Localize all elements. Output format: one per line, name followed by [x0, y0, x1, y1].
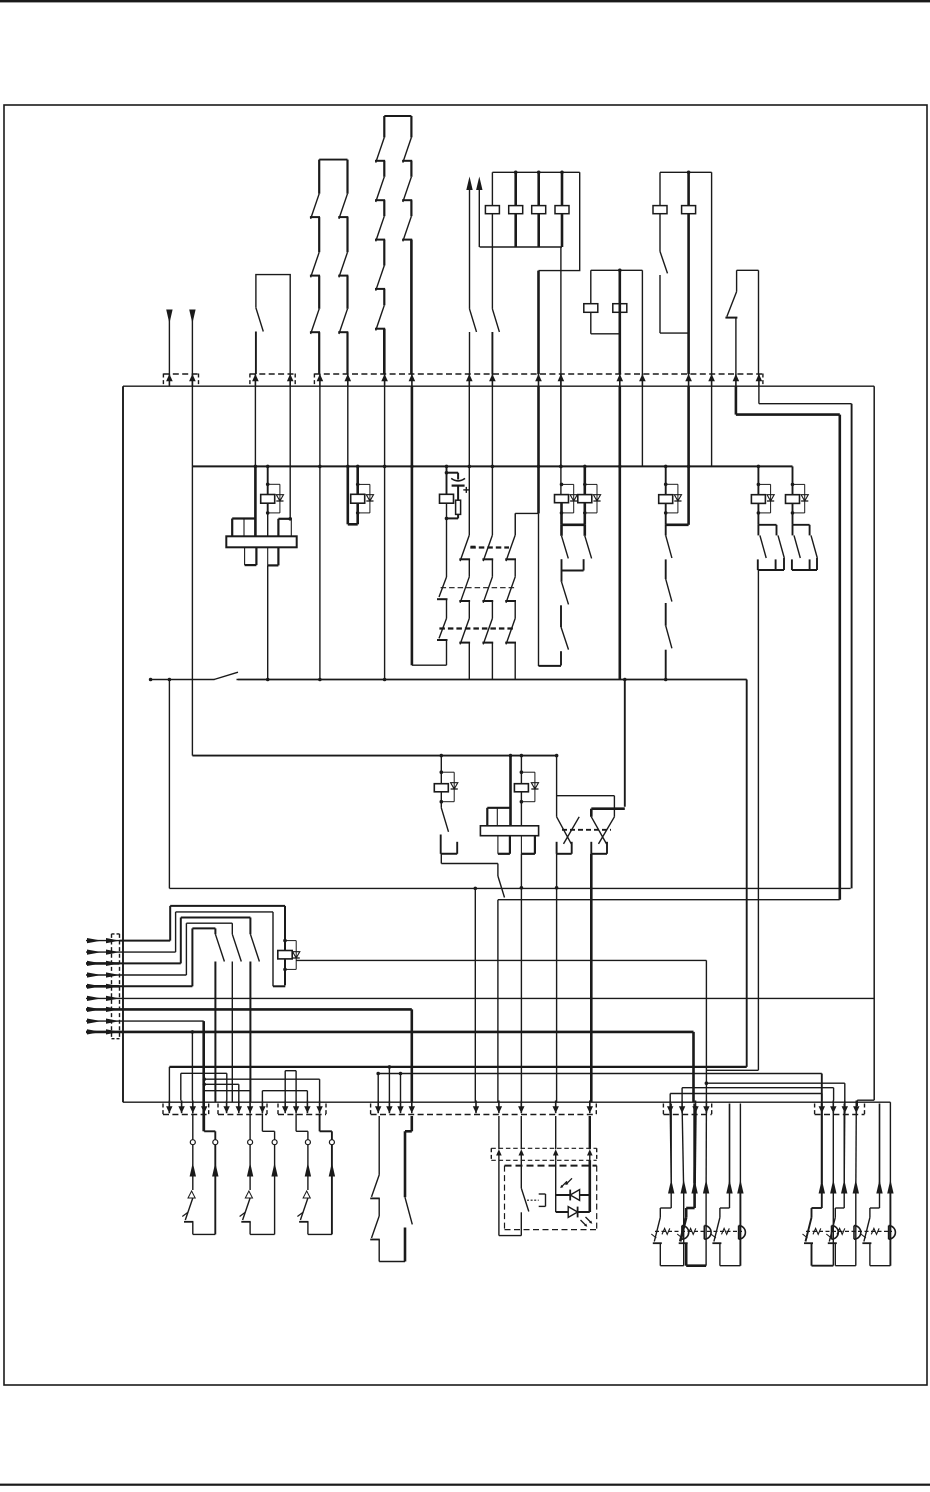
jumper drop 400 — [400, 1074, 402, 1101]
wire row 7 — [120, 1008, 412, 1011]
module LEDs — [555, 1160, 557, 1212]
jumper rail 1073R — [378, 1073, 822, 1075]
gang pole4 header — [515, 512, 538, 514]
jumper J1 — [181, 1072, 227, 1074]
jumper rail 1083 — [706, 1082, 844, 1084]
ring contact blades — [249, 918, 251, 935]
wire drop 706 — [705, 960, 707, 1101]
wire 706 lamp feed — [705, 1106, 707, 1192]
K1 lower-left staple — [244, 547, 246, 565]
switch S1 bridge — [256, 275, 290, 374]
wire row 6 — [120, 997, 875, 999]
connector ring wires — [120, 940, 171, 942]
relay K6 — [757, 465, 761, 469]
wire drop 538 — [537, 386, 540, 513]
wire drop 492 — [491, 386, 493, 466]
wire 695 lamp feed — [693, 1106, 697, 1183]
junction 475 — [474, 887, 478, 891]
timer relay KT — [445, 465, 449, 469]
junction K5 bus — [664, 678, 668, 682]
wire 670 lamp feed — [670, 1106, 671, 1183]
bottom rule — [0, 1484, 930, 1486]
jumper drop 389 — [388, 1067, 390, 1101]
top border bar — [0, 0, 930, 2]
thick feeder from fuse block — [537, 271, 540, 374]
wire 856 lamp feed — [855, 1106, 858, 1192]
relay K11 — [509, 754, 513, 758]
right vertical V2 — [851, 404, 853, 889]
K1 lower-right staple — [267, 547, 269, 565]
wire drop 255 — [254, 386, 256, 466]
rail N6 drop — [746, 680, 748, 1067]
jumper J3 — [204, 1083, 239, 1085]
jumper rail 1093 — [670, 1093, 822, 1095]
wire drop 560 — [560, 386, 562, 466]
wire drop 192 — [191, 374, 193, 466]
wire 960 — [296, 959, 706, 961]
switch S13 — [378, 1116, 380, 1175]
K12 output left — [556, 854, 558, 1102]
K8 output wire — [295, 959, 297, 961]
wire 682 lamp feed — [682, 1106, 684, 1192]
contact feed 255 lower — [254, 466, 257, 536]
right vertical V3 thick — [838, 415, 841, 900]
connector strip X3 pin arrows — [166, 1106, 172, 1113]
K1 armature bar — [226, 536, 296, 547]
jumper J4 — [204, 1090, 250, 1092]
ladder switch S2 — [319, 159, 347, 161]
gang switch block — [468, 466, 470, 535]
rail N9 — [498, 899, 840, 901]
K6 output wire — [757, 570, 759, 1070]
K5 contact chain — [665, 525, 667, 536]
switch under A1 — [470, 309, 477, 332]
K11 output wire — [520, 854, 522, 1102]
rail N5 gap mask — [215, 678, 237, 681]
feeder arrow A2 — [476, 177, 482, 191]
wire drop 619 — [618, 386, 621, 680]
wire 821 lamp feed — [821, 1074, 823, 1184]
module relay contact — [520, 1160, 522, 1188]
wire 890 from rail — [889, 1102, 891, 1192]
jumper rail 1070R — [706, 1069, 758, 1071]
push button S12 — [319, 1114, 321, 1132]
wire drop 384 — [384, 386, 386, 680]
relay K7 — [792, 466, 794, 494]
fuse block F7-F8 — [591, 269, 643, 271]
ring drop K8 — [284, 906, 286, 941]
wire 833 lamp feed — [832, 1106, 834, 1192]
fuse block right drop — [539, 172, 580, 270]
K1 upper-left staple — [232, 517, 256, 519]
relay K8 — [278, 951, 292, 959]
jumper drop 378 — [377, 1074, 379, 1101]
contact feed 290 — [289, 386, 291, 519]
wire drop 642 — [641, 386, 643, 466]
supply wire A with down arrow — [166, 310, 172, 324]
jumper J2 — [204, 1078, 319, 1080]
relay K1 coil — [266, 465, 270, 469]
rail N6 — [192, 755, 556, 757]
switch under F1 — [491, 247, 493, 309]
left connector X2 box — [111, 934, 113, 1039]
switch rail N5 — [151, 679, 747, 681]
jumper rail 1066 — [169, 1066, 746, 1068]
connector strip X1 pin arrows — [166, 374, 173, 381]
wire 740 from rail — [739, 1104, 741, 1193]
supply wire B with down arrow — [189, 310, 195, 324]
relay K10 — [440, 754, 444, 758]
connector strip X3 dashed boxes — [163, 1114, 209, 1116]
KT contact chain — [439, 577, 447, 597]
wire9 tap 192 — [191, 1032, 193, 1101]
fuse block F5-F6 — [660, 171, 712, 173]
wire drop 319 — [319, 386, 321, 680]
K10 output switch — [497, 864, 499, 877]
bridge wire 538 lower — [538, 513, 540, 666]
wire row 8 — [120, 1020, 204, 1022]
relay K2 — [346, 466, 349, 524]
push button S10 — [203, 1114, 205, 1132]
left connector X2 pin arrows — [86, 940, 120, 942]
wire 729 from rail — [729, 1104, 731, 1184]
wire row 9 — [120, 1031, 694, 1034]
bus rail N1 — [123, 385, 874, 387]
feeder arrow A1 — [466, 177, 472, 191]
relay K4 — [583, 465, 587, 469]
K3K4 contact chain — [562, 523, 585, 526]
minus label — [471, 546, 476, 548]
wire 844 lamp feed — [843, 1106, 846, 1183]
bus rail N3 thick — [736, 413, 840, 416]
wire 879 from rail — [879, 1104, 881, 1184]
changeover block K12 — [556, 756, 558, 817]
connector strip X1 dashed boxes — [163, 373, 198, 375]
module X4 header — [491, 1147, 596, 1149]
wire drop 347 — [347, 386, 349, 466]
module A1 dashed box — [505, 1165, 597, 1167]
wire drop 711 — [711, 386, 713, 466]
bus rail N4 — [192, 465, 792, 467]
rail N8 — [169, 887, 850, 889]
wire drop 411 — [411, 386, 414, 665]
K1 upper-right staple — [278, 518, 291, 520]
K12 output right — [590, 854, 593, 1102]
left frame wire — [122, 386, 124, 1102]
fuse block F1-F4 — [492, 171, 579, 173]
jumper J6 — [285, 1070, 296, 1072]
switch S4 — [737, 269, 759, 271]
jumper drop 169 — [168, 1067, 170, 1102]
bus rail N2 — [759, 403, 852, 405]
ladder switch S3 — [384, 115, 411, 117]
relay K5 — [664, 465, 668, 469]
jumper rail 1087 — [682, 1087, 834, 1089]
ring drop 273 — [272, 912, 274, 986]
jumper J5 — [262, 1090, 307, 1092]
K1 output wire — [267, 565, 269, 679]
relay K3 — [560, 247, 562, 495]
switch S1 blade — [256, 308, 263, 332]
right vertical V1 — [873, 386, 875, 1100]
horn group H2 — [821, 1104, 823, 1209]
supply rail 1102 — [123, 1101, 890, 1103]
rail N7 — [168, 680, 170, 889]
switch S1 lower lead — [255, 332, 257, 375]
push button S11 — [261, 1114, 263, 1132]
wire drop 688 — [687, 386, 690, 466]
wire drop 469 — [468, 386, 470, 466]
horn group H1 — [670, 1104, 672, 1209]
jumper rail 1100 — [857, 1099, 874, 1101]
